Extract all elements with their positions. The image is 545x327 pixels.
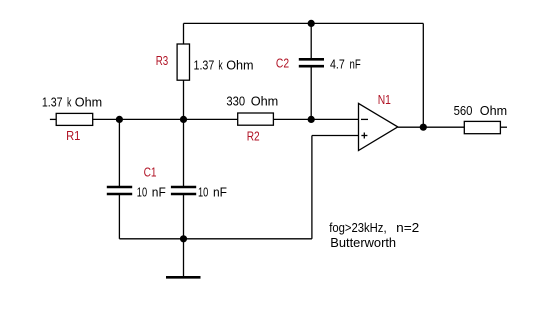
value label C2: 4.7 nF — [330, 57, 361, 72]
value label 560 Ohm — [454, 103, 507, 118]
svg-text:560: 560 — [454, 103, 473, 118]
value label C1 middle: 10 nF — [198, 185, 227, 200]
svg-text:C1: C1 — [144, 165, 157, 180]
wire C1 middle down to ground node — [183, 195, 185, 239]
svg-text:nF: nF — [152, 185, 166, 200]
junction ground node — [180, 235, 187, 242]
wire bottom rail left — [119, 238, 183, 240]
svg-text:N1: N1 — [378, 92, 391, 107]
wire C2 top stub — [310, 23, 312, 59]
capacitor C1 left — [107, 187, 132, 194]
resistor R2 — [238, 113, 274, 125]
resistor R3 — [177, 44, 189, 80]
wire node A to node B — [119, 118, 183, 120]
svg-text:10: 10 — [198, 185, 208, 200]
wire node B down to C1 middle — [183, 119, 185, 186]
svg-text:Ohm: Ohm — [480, 103, 507, 118]
wire right feedback vertical — [422, 23, 424, 127]
svg-text:Ohm: Ohm — [251, 94, 279, 109]
wire output right stub — [500, 126, 507, 128]
wire bottom rail right — [184, 238, 312, 240]
resistor 560 Ohm — [464, 121, 500, 133]
svg-text:R2: R2 — [247, 129, 260, 144]
wire op-amp plus input — [312, 135, 359, 137]
resistor R1 — [56, 113, 92, 125]
svg-text:nF: nF — [213, 185, 227, 200]
value label C1 left: 10 nF — [137, 185, 166, 200]
annotation: filter spec — [329, 220, 419, 250]
wire R2 to node C — [273, 118, 311, 120]
junction node B — [180, 116, 187, 123]
wire top feedback: R3 corner to node D — [184, 22, 312, 24]
svg-text:4.7: 4.7 — [330, 57, 345, 72]
wire R3 bottom to node B — [183, 80, 185, 119]
svg-text:C2: C2 — [276, 55, 289, 70]
wire C2 bottom to node C — [310, 67, 312, 120]
wire C1 left down to bottom rail — [118, 195, 120, 239]
svg-text:Ohm: Ohm — [75, 95, 102, 110]
wire R3 top stub — [183, 23, 185, 44]
svg-text:1.37: 1.37 — [42, 95, 63, 110]
wire top feedback: node D to right corner — [311, 22, 423, 24]
ground — [166, 239, 201, 277]
capacitor C1 middle — [171, 187, 196, 194]
svg-text:R3: R3 — [156, 53, 169, 68]
svg-text:330: 330 — [226, 94, 245, 109]
junction node E — [420, 124, 427, 131]
wire op-amp output to node E — [398, 126, 424, 128]
value label R1: 1.37 k Ohm — [42, 95, 102, 110]
svg-text:n=2: n=2 — [396, 220, 419, 235]
wire R1 to node A — [93, 118, 120, 120]
svg-text:nF: nF — [350, 57, 361, 72]
capacitor C2 — [299, 59, 324, 66]
op-amp N1 — [359, 103, 398, 150]
wire node E to output resistor — [423, 126, 464, 128]
wire node C to op-amp minus input — [311, 118, 358, 120]
svg-text:Butterworth: Butterworth — [330, 235, 396, 250]
junction node C — [308, 116, 315, 123]
wire input left stub — [50, 118, 56, 120]
wire node A down to C1 left — [118, 119, 120, 186]
svg-text:1.37: 1.37 — [194, 58, 215, 73]
svg-text:Ohm: Ohm — [226, 58, 253, 73]
value label R3: 1.37 k Ohm — [194, 58, 254, 73]
wire node B to R2 — [184, 118, 238, 120]
svg-text:k: k — [218, 58, 223, 73]
svg-text:k: k — [67, 95, 72, 110]
junction node D — [308, 20, 315, 27]
svg-text:R1: R1 — [66, 128, 80, 143]
wire plus branch vertical — [311, 136, 313, 239]
svg-text:fog>23kHz,: fog>23kHz, — [329, 220, 386, 235]
svg-text:10: 10 — [137, 185, 147, 200]
value label R2: 330 Ohm — [226, 94, 278, 109]
junction node A — [116, 116, 123, 123]
